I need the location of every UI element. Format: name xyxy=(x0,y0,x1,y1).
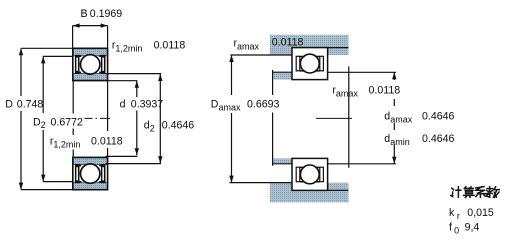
svg-text:0.0118: 0.0118 xyxy=(91,136,123,148)
svg-text:D2: D2 xyxy=(33,116,46,130)
svg-text:d: d xyxy=(120,98,126,110)
svg-text:0.4646: 0.4646 xyxy=(422,133,455,145)
d2 dimension xyxy=(106,74,195,164)
svg-text:0.1969: 0.1969 xyxy=(90,8,123,20)
seal right (top section) xyxy=(101,55,106,74)
svg-text:ramax: ramax xyxy=(234,37,260,51)
B dimension (top) xyxy=(73,8,123,48)
bearing outer ring top strip (left view, top section) xyxy=(73,48,108,80)
D dimension (far left) xyxy=(5,48,73,189)
计算系数 heading (drawn strokes) xyxy=(451,187,500,198)
数 xyxy=(487,187,500,198)
housing shoulder lines (D_amax extension lines) xyxy=(231,54,293,56)
axis centerline (right view) xyxy=(316,117,352,119)
svg-text:B: B xyxy=(81,8,88,20)
svg-text:0.6693: 0.6693 xyxy=(247,99,280,111)
right view top bearing section xyxy=(292,48,328,80)
svg-text:0.6772: 0.6772 xyxy=(51,116,84,128)
d_a dimension line (right) xyxy=(392,72,396,164)
svg-text:0.0118: 0.0118 xyxy=(272,37,304,49)
svg-text:r1,2min: r1,2min xyxy=(112,39,143,53)
svg-text:f09,4: f09,4 xyxy=(449,222,479,236)
axis centerline (left view) xyxy=(85,117,111,119)
right view bottom bearing section xyxy=(292,158,328,190)
svg-text:0.0118: 0.0118 xyxy=(369,85,401,97)
svg-text:kr0,015: kr0,015 xyxy=(449,207,494,221)
D_amax dimension xyxy=(211,55,280,183)
svg-text:damin: damin xyxy=(384,133,409,147)
svg-text:r1,2min: r1,2min xyxy=(50,136,81,150)
svg-text:d2: d2 xyxy=(144,120,155,134)
svg-text:0.748: 0.748 xyxy=(17,99,44,111)
shaft shoulder face line xyxy=(272,70,274,166)
bore face line left (x=73) xyxy=(72,81,74,158)
bore face line right (x=107.6) xyxy=(107,81,109,158)
seal left (top section) xyxy=(75,55,80,74)
算 xyxy=(464,187,474,198)
计 xyxy=(451,187,461,197)
shaft end cut line xyxy=(348,66,350,167)
系 xyxy=(476,187,487,198)
svg-text:0.3937: 0.3937 xyxy=(131,98,164,110)
housing bottom (strip + shoulders) xyxy=(270,183,349,203)
svg-text:0.4646: 0.4646 xyxy=(422,111,455,123)
shaft surface lines (d_a extension lines) xyxy=(328,71,396,73)
svg-text:damax: damax xyxy=(384,111,412,125)
housing top (strip + shoulders) xyxy=(270,35,349,55)
ball (top section) xyxy=(81,55,100,74)
housing seat lines xyxy=(292,47,349,49)
shaft shoulder top block xyxy=(273,72,292,79)
D2 dimension xyxy=(33,56,83,181)
svg-text:0.4646: 0.4646 xyxy=(162,120,195,132)
svg-text:ramax: ramax xyxy=(332,85,358,99)
d dimension xyxy=(106,81,164,157)
shaft shoulder bottom block xyxy=(273,158,292,163)
svg-text:D: D xyxy=(5,99,13,111)
bottom section (left view) xyxy=(73,157,108,189)
svg-text:0.0118: 0.0118 xyxy=(154,39,186,51)
svg-text:Damax: Damax xyxy=(211,99,241,113)
